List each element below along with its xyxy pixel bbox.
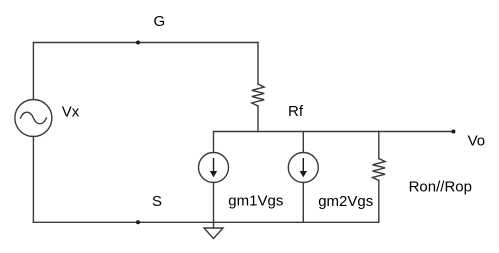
- ground symbol triangle: [204, 228, 223, 239]
- wire Ron//Rop top lead: [378, 132, 380, 159]
- wire Rf top lead: [257, 43, 259, 85]
- node S junction dot: [136, 220, 140, 224]
- wire ground stem: [213, 222, 215, 228]
- wire Rf bottom lead: [257, 106, 259, 132]
- svg-text:S: S: [152, 193, 162, 210]
- current source 2 arrow: [300, 158, 307, 177]
- source Vx circle: [15, 100, 52, 137]
- node G junction dot: [136, 41, 140, 45]
- wire current source 2 top lead: [302, 132, 304, 153]
- svg-text:gm1Vgs: gm1Vgs: [228, 193, 283, 210]
- wire middle node rail to Vo: [214, 131, 454, 133]
- wire current source 2 bottom lead: [302, 183, 304, 223]
- current source 1 arrow: [210, 158, 217, 177]
- svg-text:gm2Vgs: gm2Vgs: [318, 193, 373, 210]
- current source gm2Vgs circle: [288, 153, 318, 183]
- wire Ron//Rop bottom lead: [378, 181, 380, 223]
- resistor Rf zigzag: [252, 84, 264, 106]
- svg-text:Rf: Rf: [288, 103, 304, 120]
- wire left vertical from Vx bottom to S rail: [32, 137, 34, 223]
- wire current source 1 bottom lead: [213, 183, 215, 223]
- source Vx sine symbol: [21, 112, 47, 124]
- svg-text:Vo: Vo: [468, 133, 486, 150]
- svg-text:Vx: Vx: [62, 103, 80, 120]
- wire top G rail: [33, 42, 258, 44]
- node Vo terminal dot: [451, 130, 455, 134]
- resistor Ron//Rop zigzag: [373, 159, 386, 181]
- wire bottom S rail: [33, 221, 378, 223]
- wire current source 1 top lead: [213, 132, 215, 153]
- wire left vertical from G rail to Vx top: [32, 43, 34, 100]
- svg-text:G: G: [154, 13, 166, 30]
- svg-text:Ron//Rop: Ron//Rop: [409, 179, 472, 196]
- current source gm1Vgs circle: [199, 153, 229, 183]
